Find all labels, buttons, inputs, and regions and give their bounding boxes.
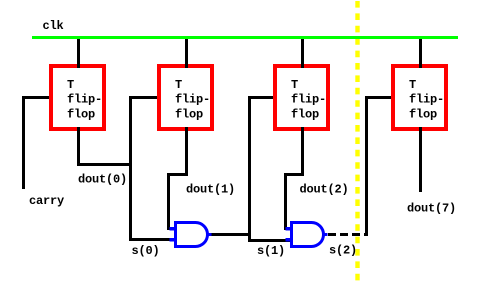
svg-text:carry: carry	[29, 194, 64, 208]
svg-text:flop: flop	[409, 107, 437, 121]
svg-text:flip-: flip-	[67, 93, 102, 107]
svg-text:flop: flop	[67, 107, 95, 121]
svg-text:dout(1): dout(1)	[186, 183, 235, 197]
svg-text:T: T	[291, 78, 298, 92]
svg-text:dout(0): dout(0)	[78, 173, 127, 187]
svg-text:flip-: flip-	[175, 93, 210, 107]
svg-text:T: T	[175, 78, 182, 92]
svg-text:flip-: flip-	[291, 93, 326, 107]
svg-text:dout(2): dout(2)	[300, 183, 349, 197]
svg-text:flip-: flip-	[409, 93, 444, 107]
svg-text:flop: flop	[175, 107, 203, 121]
svg-text:T: T	[409, 78, 416, 92]
svg-text:s(2): s(2)	[329, 244, 357, 258]
svg-text:T: T	[67, 78, 74, 92]
svg-text:s(1): s(1)	[257, 244, 285, 258]
svg-text:flop: flop	[291, 107, 319, 121]
svg-text:s(0): s(0)	[132, 244, 160, 258]
svg-text:clk: clk	[43, 19, 64, 33]
svg-text:dout(7): dout(7)	[407, 202, 456, 216]
